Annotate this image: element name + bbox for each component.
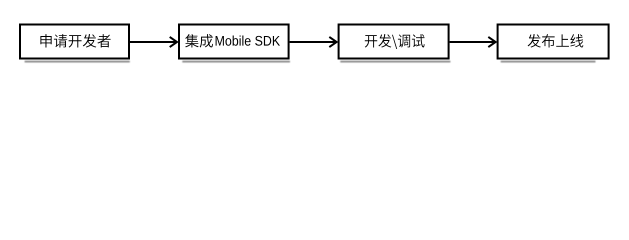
text label: 开发\调试 bbox=[365, 34, 425, 49]
flow arrow 3: box 3 to box 4 bbox=[450, 37, 496, 47]
drop shadow under box 4 bbox=[501, 61, 596, 63]
process box 2: 集成 Mobile SDK (rectangle) bbox=[179, 25, 289, 59]
drop shadow under box 3 bbox=[340, 61, 450, 63]
flow arrow 1: box 1 to box 2 bbox=[130, 37, 177, 47]
process box 3: 开发\调试 (rectangle) bbox=[339, 25, 449, 59]
text label: 申请开发者 bbox=[40, 34, 110, 47]
process box 4: 发布上线 (rectangle) bbox=[498, 25, 609, 59]
flow arrow 2: box 2 to box 3 bbox=[290, 37, 337, 47]
text label: 集成 (box 2) bbox=[185, 34, 213, 48]
text label: 发布上线 bbox=[528, 34, 584, 47]
drop shadow under box 2 bbox=[182, 61, 290, 63]
text label: Mobile SDK (box 2) bbox=[216, 35, 280, 45]
drop shadow under box 1 bbox=[25, 61, 130, 63]
process box 1: 申请开发者 (rectangle) bbox=[20, 25, 129, 59]
